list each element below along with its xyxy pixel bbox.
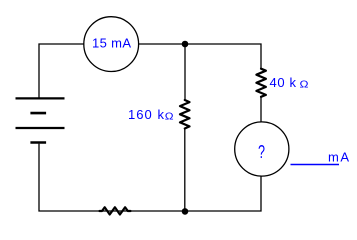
wire: top-left from battery to ammeter: [39, 44, 84, 98]
resistor R1 160k zigzag: [180, 100, 190, 129]
resistor R3 bottom zigzag: [100, 207, 131, 214]
resistor R2 40k zigzag: [256, 69, 266, 97]
svg-text:Ω: Ω: [300, 79, 310, 90]
battery V1 plate short upper: [30, 112, 46, 115]
svg-text:mA: mA: [328, 150, 349, 165]
wire: 40k bottom to meter top: [260, 97, 262, 122]
svg-text:40 k: 40 k: [270, 75, 297, 90]
wire: bottom left segment: [39, 144, 185, 211]
meter U1 circle: [235, 122, 289, 176]
battery V1 plate long top: [16, 97, 65, 99]
node A (top junction dot): [182, 41, 189, 48]
wire: ammeter right to top-right corner down to R 40k: [139, 44, 261, 69]
battery V1 plate long lower: [16, 127, 65, 129]
probe wire (blue): [291, 164, 340, 166]
node B (bottom junction dot): [182, 208, 189, 215]
wire: 160k resistor bottom to bottom junction: [184, 129, 186, 212]
svg-text:15 mA: 15 mA: [92, 35, 131, 50]
battery V1 plate short bottom: [30, 141, 46, 144]
svg-text:?: ?: [258, 142, 265, 162]
ammeter A1 circle: [84, 17, 139, 72]
svg-text:Ω: Ω: [165, 111, 174, 122]
wire: meter bottom to bottom-right corner: [185, 176, 261, 211]
wire: top junction down to 160k resistor: [184, 44, 186, 100]
svg-text:160 k: 160 k: [128, 107, 165, 122]
